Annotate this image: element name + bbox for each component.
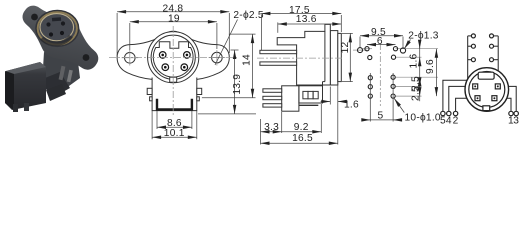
svg-text:13.9: 13.9: [232, 74, 243, 95]
svg-text:13.6: 13.6: [296, 14, 317, 25]
svg-text:4: 4: [446, 115, 452, 126]
svg-text:19: 19: [168, 14, 180, 25]
svg-text:2.5: 2.5: [411, 86, 422, 101]
svg-text:1.6: 1.6: [409, 53, 420, 68]
svg-text:10-ϕ1.0: 10-ϕ1.0: [405, 113, 441, 124]
svg-text:5: 5: [378, 110, 384, 121]
svg-text:9.2: 9.2: [294, 122, 309, 133]
svg-text:2: 2: [453, 115, 459, 126]
svg-text:2-ϕ2.5: 2-ϕ2.5: [233, 10, 264, 21]
svg-text:9.6: 9.6: [425, 59, 436, 74]
svg-text:2-ϕ1.3: 2-ϕ1.3: [408, 31, 439, 42]
svg-text:1.6: 1.6: [344, 100, 359, 111]
svg-text:3.3: 3.3: [264, 122, 279, 133]
svg-text:10.1: 10.1: [164, 128, 185, 139]
svg-text:14: 14: [241, 54, 252, 66]
svg-text:6: 6: [377, 36, 383, 47]
svg-text:16.5: 16.5: [292, 133, 313, 144]
svg-text:12: 12: [340, 42, 351, 54]
svg-text:3: 3: [513, 115, 519, 126]
